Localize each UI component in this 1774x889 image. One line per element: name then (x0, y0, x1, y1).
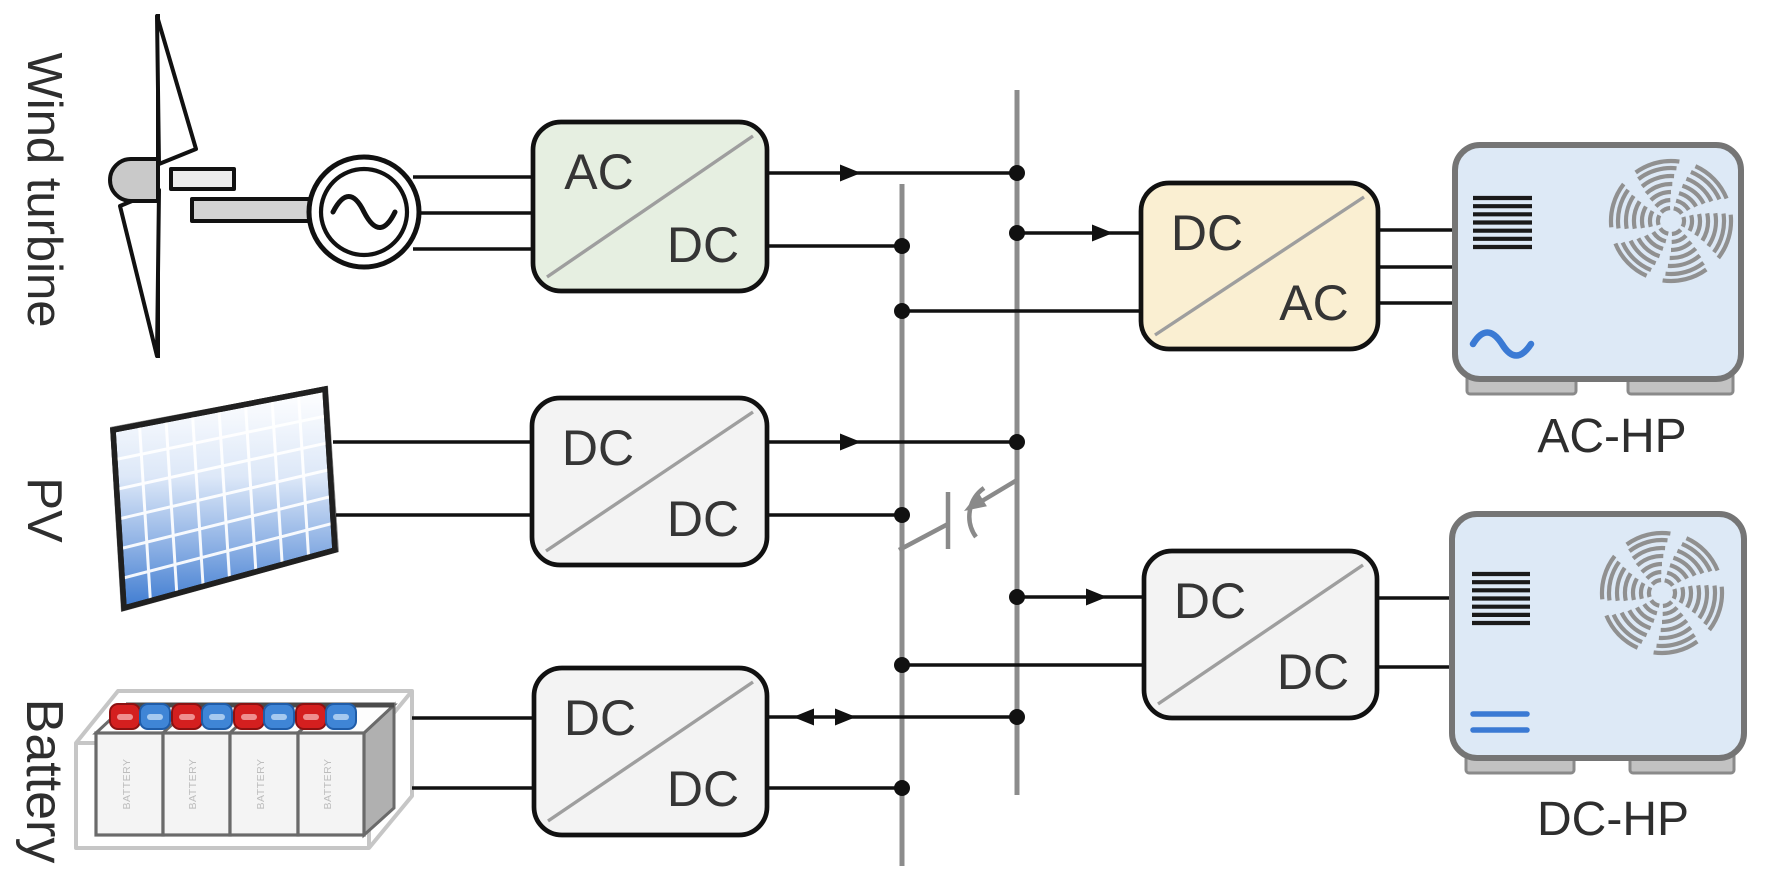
node bus2/U4 (1009, 225, 1025, 241)
svg-text:DC: DC (564, 690, 636, 746)
wire U4 to AC-HP phase b (1378, 265, 1457, 269)
svg-text:BATTERY: BATTERY (322, 759, 334, 810)
wire battery plus to DC/DC (412, 716, 536, 720)
node bus2/U5 (1009, 589, 1025, 605)
wire bus 1 to U4 (902, 309, 1142, 313)
wire bus 1 to U5 (902, 663, 1146, 667)
DC bus 2 (right vertical bus) (1015, 90, 1020, 795)
svg-text:DC: DC (667, 491, 739, 547)
label PV (17, 477, 71, 543)
svg-text:DC: DC (1174, 573, 1246, 629)
DC bus 1 (left vertical bus) (900, 184, 905, 866)
label Battery (15, 699, 73, 864)
wire PV plus to DC/DC (333, 440, 534, 444)
svg-text:Battery: Battery (15, 699, 73, 864)
breaker S1 between buses (899, 480, 1017, 550)
node bus2/U1 (1009, 165, 1025, 181)
converter U3 battery DC/DC (534, 668, 767, 835)
wire PV minus to DC/DC (336, 513, 534, 517)
label Wind turbine (17, 52, 71, 327)
battery pack B1 (76, 691, 412, 848)
wire U2 return to bus 1 (767, 513, 902, 517)
wire bus 2 to U4 (1017, 225, 1142, 242)
svg-text:DC: DC (1171, 205, 1243, 261)
wire generator to AC/DC phase a (413, 175, 535, 179)
wire U5 to DC-HP minus (1377, 665, 1454, 669)
node bus2/U2 (1009, 434, 1025, 450)
node bus1/U2 (894, 507, 910, 523)
wire U2 output to bus 2 (767, 434, 1017, 451)
PV panel (110, 386, 339, 612)
svg-text:DC-HP: DC-HP (1537, 793, 1689, 846)
wire U3 bidirectional to bus 2 (767, 709, 1017, 726)
label AC-HP (1537, 410, 1686, 463)
svg-text:DC: DC (562, 420, 634, 476)
node bus1/U5 (894, 657, 910, 673)
DC heat pump DC-HP (1452, 514, 1744, 773)
svg-text:DC: DC (667, 217, 739, 273)
svg-text:BATTERY: BATTERY (255, 759, 267, 810)
wire generator to AC/DC phase b (418, 211, 535, 215)
svg-text:DC: DC (667, 761, 739, 817)
wind turbine W1 (110, 14, 310, 358)
wire U3 return to bus 1 (767, 786, 902, 790)
wire generator to AC/DC phase c (413, 247, 535, 251)
label DC-HP (1537, 793, 1689, 846)
wire U1 return to bus 1 (767, 244, 902, 248)
AC heat pump AC-HP (1455, 145, 1741, 394)
wire bus 2 to U5 (1017, 589, 1146, 606)
node bus1/U4 (894, 303, 910, 319)
node bus2/U3 (1009, 709, 1025, 725)
wire battery minus to DC/DC (412, 786, 536, 790)
converter U5 load DC/DC (1144, 551, 1377, 718)
converter U2 PV DC/DC (532, 398, 767, 565)
svg-text:BATTERY: BATTERY (121, 759, 133, 810)
svg-text:PV: PV (17, 477, 71, 543)
generator G1 (309, 157, 419, 267)
svg-text:DC: DC (1277, 644, 1349, 700)
node bus1/U3 (894, 780, 910, 796)
svg-text:Wind turbine: Wind turbine (17, 52, 71, 327)
wire U4 to AC-HP phase a (1378, 228, 1457, 232)
converter U4 DC/AC inverter (1141, 183, 1378, 349)
svg-text:AC-HP: AC-HP (1537, 410, 1686, 463)
node bus1/U1 (894, 238, 910, 254)
svg-text:BATTERY: BATTERY (187, 759, 199, 810)
svg-text:AC: AC (1279, 275, 1348, 331)
wire U4 to AC-HP phase c (1378, 301, 1457, 305)
svg-text:AC: AC (564, 144, 633, 200)
converter U1 wind AC/DC (533, 122, 767, 291)
wire U1 output to bus 2 (767, 165, 1017, 182)
wire U5 to DC-HP plus (1377, 596, 1454, 600)
